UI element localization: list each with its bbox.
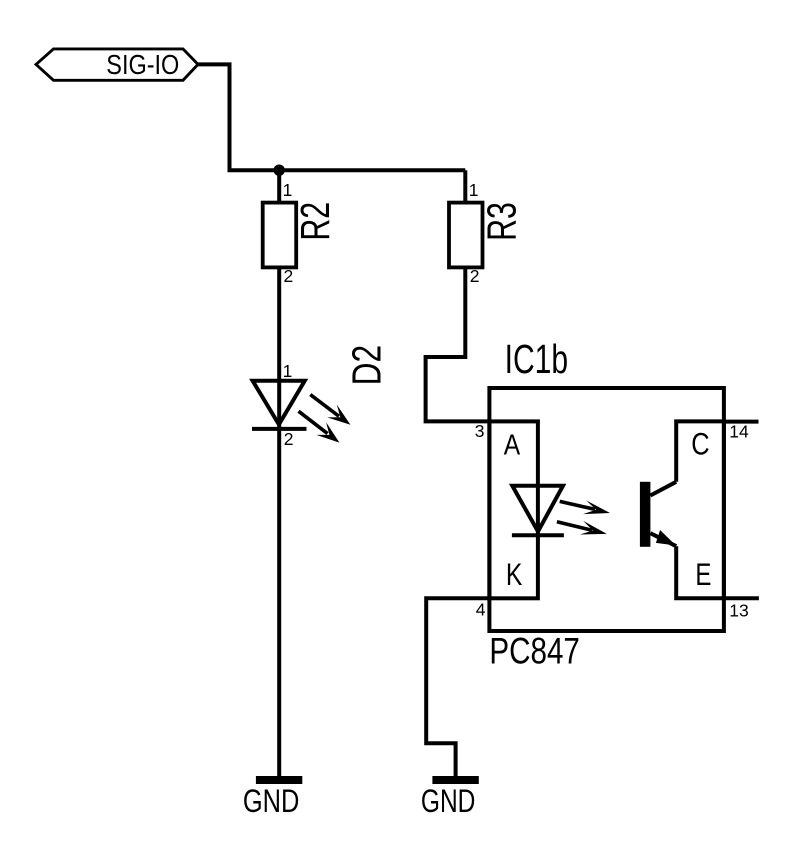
- svg-text:K: K: [506, 556, 523, 592]
- wire flag to junction: [196, 64, 465, 170]
- D2 light arrow 2: [299, 411, 340, 442]
- ground symbol right: [421, 776, 479, 819]
- optocoupler IC1b outer box: [489, 336, 724, 672]
- LED D2: [252, 345, 389, 429]
- junction node: [274, 165, 285, 176]
- svg-text:GND: GND: [421, 783, 476, 819]
- svg-text:GND: GND: [243, 783, 300, 819]
- opto LED: [512, 486, 564, 536]
- svg-text:2: 2: [284, 429, 294, 449]
- opto light arrow 1: [560, 500, 610, 514]
- svg-text:R2: R2: [292, 202, 338, 241]
- pin 13 wire: [724, 596, 759, 600]
- wire junction to R2: [277, 170, 281, 202]
- svg-text:IC1b: IC1b: [505, 336, 568, 382]
- net flag SIG-IO: [36, 48, 198, 80]
- ground symbol left: [243, 776, 302, 819]
- resistor R3: [449, 202, 524, 267]
- svg-text:1: 1: [283, 361, 293, 381]
- D2 light arrow 1: [310, 395, 350, 425]
- wire R2 through D2 to GND: [277, 267, 281, 777]
- svg-text:14: 14: [729, 422, 749, 442]
- opto light arrow 2: [557, 521, 607, 535]
- resistor R2: [263, 202, 338, 268]
- pin 14 wire: [724, 420, 759, 424]
- opto transistor side inner box (C/E): [676, 421, 724, 598]
- svg-text:PC847: PC847: [489, 631, 580, 672]
- wire junction to R3 (vertical): [463, 170, 467, 202]
- svg-text:C: C: [691, 426, 709, 462]
- svg-text:SIG-IO: SIG-IO: [106, 48, 179, 80]
- svg-text:2: 2: [470, 266, 480, 286]
- svg-text:R3: R3: [478, 202, 524, 241]
- svg-text:3: 3: [475, 421, 485, 441]
- svg-text:1: 1: [469, 180, 479, 200]
- svg-text:13: 13: [729, 601, 749, 621]
- svg-text:A: A: [504, 430, 521, 462]
- svg-text:4: 4: [476, 600, 486, 620]
- wire R3 to opto pin 3: [426, 267, 490, 421]
- opto LED side inner box (A/K): [489, 421, 538, 598]
- svg-text:D2: D2: [343, 345, 389, 386]
- wire opto pin 4 to GND: [426, 598, 489, 777]
- opto transistor Q: [640, 482, 676, 547]
- svg-text:1: 1: [283, 180, 293, 200]
- svg-text:E: E: [695, 556, 711, 592]
- svg-text:2: 2: [284, 266, 294, 286]
